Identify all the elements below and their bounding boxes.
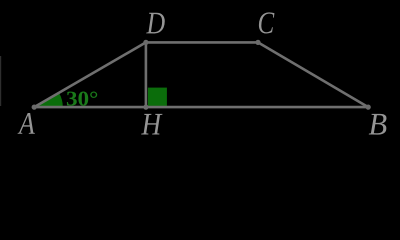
line DH xyxy=(145,42,148,107)
label A xyxy=(18,113,35,134)
label B xyxy=(369,114,387,135)
angle value label 30 degrees xyxy=(67,92,97,106)
vertex dot H xyxy=(143,105,148,110)
angle marker 30 degrees at A (green sector) xyxy=(34,93,63,107)
label C xyxy=(259,12,275,33)
vertex dot C xyxy=(255,40,260,45)
line CB xyxy=(258,42,368,107)
label D xyxy=(146,13,165,34)
line AD xyxy=(34,42,146,107)
vertex dot A xyxy=(32,105,37,110)
faint left-edge sliver artifact xyxy=(0,56,1,106)
line DC xyxy=(146,41,258,44)
line AB xyxy=(34,106,368,109)
vertex dot D xyxy=(143,40,148,45)
vertex dot B xyxy=(366,105,371,110)
label H xyxy=(141,114,162,135)
right-angle marker at H (green square) xyxy=(148,88,167,106)
